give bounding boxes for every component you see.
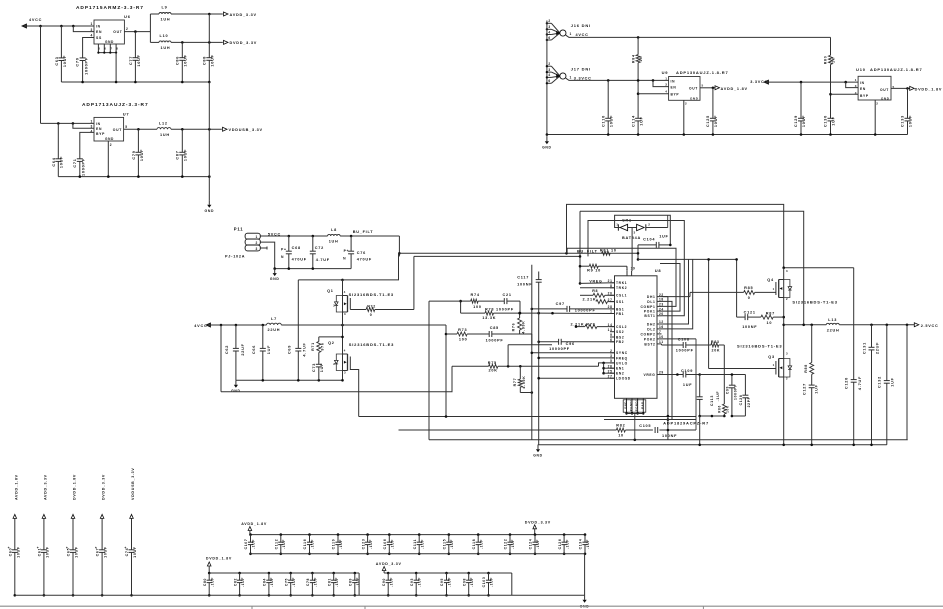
svg-text:1UH: 1UH <box>161 46 171 50</box>
svg-text:R75: R75 <box>488 361 497 365</box>
wire <box>603 363 605 373</box>
wire <box>571 79 669 81</box>
wire <box>107 141 109 177</box>
wire <box>511 573 513 595</box>
node B <box>81 81 84 84</box>
svg-text:SS: SS <box>96 36 102 40</box>
wire <box>250 553 585 555</box>
svg-text:11: 11 <box>659 340 664 344</box>
svg-text:C86: C86 <box>176 56 180 65</box>
inductor L13 <box>826 318 914 332</box>
capacitor C78 <box>306 572 318 597</box>
resistor R71 <box>311 337 325 364</box>
capacitor C131 <box>862 325 879 445</box>
svg-text:22UF: 22UF <box>241 343 245 355</box>
wire <box>251 606 253 609</box>
svg-text:SS1: SS1 <box>616 300 624 304</box>
svg-text:0: 0 <box>748 296 751 300</box>
wire <box>579 211 581 283</box>
svg-text:.1UF: .1UF <box>479 539 483 549</box>
svg-text:1UF: 1UF <box>267 345 271 354</box>
svg-text:PGND2: PGND2 <box>635 399 639 411</box>
svg-text:GND: GND <box>542 145 552 149</box>
node C <box>79 175 82 178</box>
svg-text:10UF: 10UF <box>184 54 188 66</box>
capacitor C115 <box>443 533 455 555</box>
resistor R73 <box>446 328 468 342</box>
capacitor C60 <box>8 474 21 596</box>
svg-text:.1UF: .1UF <box>420 539 424 549</box>
wire <box>319 336 343 338</box>
wire <box>571 36 831 38</box>
ground <box>274 269 276 274</box>
svg-text:.1UF: .1UF <box>314 577 318 587</box>
wire <box>615 215 671 245</box>
svg-text:C67: C67 <box>96 548 100 557</box>
svg-text:2.21K R79: 2.21K R79 <box>571 322 596 326</box>
svg-text:OUT: OUT <box>689 86 698 90</box>
svg-text:C85: C85 <box>490 326 499 330</box>
svg-text:EN: EN <box>860 87 866 91</box>
resistor R81 <box>600 249 617 256</box>
capacitor C103 <box>482 572 494 597</box>
svg-text:4: 4 <box>548 73 550 77</box>
svg-text:R77: R77 <box>513 378 517 387</box>
svg-text:R82: R82 <box>616 423 625 427</box>
svg-text:10UF: 10UF <box>60 156 64 168</box>
regulator U10 <box>858 76 891 100</box>
svg-text:R85: R85 <box>744 286 753 290</box>
capacitor C63 <box>55 26 67 82</box>
svg-text:DH2: DH2 <box>647 322 656 326</box>
capacitor C62 <box>225 325 245 380</box>
svg-text:TRK2: TRK2 <box>616 286 627 290</box>
capacitor C105 <box>639 424 696 438</box>
svg-text:DVDD_1.8V: DVDD_1.8V <box>73 474 77 500</box>
svg-text:C123: C123 <box>361 539 365 550</box>
svg-text:1000PF: 1000PF <box>676 349 694 353</box>
svg-text:EN: EN <box>96 127 102 131</box>
svg-text:GND: GND <box>270 277 280 281</box>
capacitor C104 <box>638 235 672 248</box>
svg-text:EN: EN <box>671 85 677 89</box>
wire <box>298 279 342 281</box>
svg-text:ADP1713AUJZ-3.3-R7: ADP1713AUJZ-3.3-R7 <box>82 102 149 108</box>
svg-text:C73: C73 <box>312 363 316 372</box>
resistor R8 <box>580 289 615 297</box>
svg-text:1UF: 1UF <box>814 384 818 393</box>
wire <box>73 26 94 32</box>
resistor R78 <box>461 308 539 320</box>
capacitor C90 <box>382 572 394 597</box>
capacitor C134 <box>579 533 591 555</box>
capacitor C120 <box>845 376 862 445</box>
wire <box>853 268 855 380</box>
capacitor C68 <box>281 236 307 269</box>
inductor L7 <box>267 317 447 332</box>
wire <box>519 301 521 313</box>
capacitor C109 <box>662 369 702 387</box>
svg-text:FB1: FB1 <box>616 312 624 316</box>
svg-text:4.7UF: 4.7UF <box>302 342 306 356</box>
svg-text:2: 2 <box>333 304 335 308</box>
svg-text:L13: L13 <box>828 318 837 322</box>
node D <box>546 133 549 136</box>
capacitor C107 <box>244 533 256 555</box>
svg-text:P+: P+ <box>281 248 287 252</box>
svg-text:L8: L8 <box>331 228 337 232</box>
node AVDD_3.3V <box>208 13 211 16</box>
svg-text:4: 4 <box>344 290 346 294</box>
svg-text:BS1: BS1 <box>616 307 624 311</box>
svg-text:4: 4 <box>855 91 857 95</box>
svg-text:GND: GND <box>105 137 114 141</box>
svg-text:4: 4 <box>344 348 346 352</box>
svg-text:FREQ: FREQ <box>616 356 628 360</box>
svg-text:GND: GND <box>690 97 699 101</box>
resistor R79 <box>571 322 615 328</box>
capacitor C95 <box>440 572 452 597</box>
svg-text:EN: EN <box>96 30 102 34</box>
svg-text:R86: R86 <box>717 405 721 413</box>
svg-text:22UH: 22UH <box>827 328 840 332</box>
wire <box>124 128 157 130</box>
svg-text:GND: GND <box>105 40 114 44</box>
svg-text:1: 1 <box>773 287 775 291</box>
wire <box>83 38 94 58</box>
svg-text:3: 3 <box>548 68 550 72</box>
svg-text:C82: C82 <box>233 578 237 586</box>
wire <box>507 345 509 367</box>
svg-text:GND: GND <box>231 389 241 393</box>
svg-text:.1UF: .1UF <box>292 577 296 587</box>
wire <box>342 374 344 380</box>
svg-text:470UF: 470UF <box>292 258 307 262</box>
resistor R77 <box>513 366 526 392</box>
svg-text:C65: C65 <box>67 548 71 557</box>
svg-text:EN1: EN1 <box>616 367 624 371</box>
svg-text:N: N <box>281 255 284 259</box>
wire <box>667 297 669 440</box>
node VDDUSB_3.3V <box>181 128 184 131</box>
wire <box>342 280 344 292</box>
wire <box>149 14 151 42</box>
svg-text:.1UF: .1UF <box>448 577 452 587</box>
svg-text:2: 2 <box>685 102 687 106</box>
svg-text:AVDD_1.8V: AVDD_1.8V <box>241 522 267 526</box>
wire <box>580 282 615 285</box>
svg-text:AVDD_1.8V: AVDD_1.8V <box>14 474 18 500</box>
svg-text:J16 DNI: J16 DNI <box>571 23 591 28</box>
svg-text:2: 2 <box>333 362 335 366</box>
svg-text:C64: C64 <box>52 157 56 166</box>
svg-text:10000PF: 10000PF <box>575 309 596 313</box>
wire <box>580 287 615 289</box>
node DVDD_1.8V <box>910 86 915 90</box>
wire <box>709 368 776 370</box>
svg-text:1UF: 1UF <box>320 363 324 372</box>
wire <box>343 253 399 280</box>
svg-text:.1UF: .1UF <box>241 577 245 587</box>
svg-text:C132: C132 <box>878 376 882 388</box>
svg-text:1UH: 1UH <box>329 240 339 244</box>
svg-text:19: 19 <box>631 266 636 270</box>
svg-text:4.7UF: 4.7UF <box>316 258 330 262</box>
svg-text:C68: C68 <box>292 246 301 250</box>
wire <box>250 534 585 536</box>
wire <box>606 429 608 431</box>
svg-text:BYP: BYP <box>96 132 105 136</box>
capacitor C76 <box>343 236 372 269</box>
wire <box>460 301 462 313</box>
capacitor C81 <box>327 572 339 597</box>
capacitor C66 <box>252 325 271 380</box>
wire <box>874 100 876 135</box>
wire <box>260 242 274 269</box>
capacitor C108 <box>662 337 711 352</box>
capacitor C123 <box>361 533 373 555</box>
wire <box>700 415 725 417</box>
svg-text:C95: C95 <box>440 578 444 586</box>
svg-text:FB2: FB2 <box>616 340 624 344</box>
svg-text:Q1: Q1 <box>327 289 334 293</box>
svg-text:22UH: 22UH <box>268 328 281 332</box>
svg-text:10UF: 10UF <box>137 54 141 66</box>
svg-text:BST1: BST1 <box>644 314 655 318</box>
svg-text:C97: C97 <box>556 302 565 306</box>
wire <box>683 220 685 222</box>
capacitor C117 <box>517 275 542 286</box>
capacitor C73 <box>312 363 324 381</box>
wire <box>584 554 586 596</box>
wire <box>546 21 548 135</box>
capacitor C74 <box>124 468 137 597</box>
wire <box>520 333 532 335</box>
capacitor C82 <box>233 572 245 597</box>
capacitor C69 <box>288 280 307 380</box>
svg-text:100NF: 100NF <box>517 283 532 287</box>
inductor L10 <box>150 34 222 50</box>
svg-text:10UF: 10UF <box>104 546 108 558</box>
svg-text:.1UF: .1UF <box>252 539 256 549</box>
svg-text:R71: R71 <box>311 342 315 351</box>
ground <box>208 200 210 205</box>
wire <box>732 415 746 417</box>
wire <box>236 379 343 381</box>
svg-text:GND: GND <box>533 453 543 457</box>
svg-text:U7: U7 <box>123 111 130 116</box>
svg-text:.1UF: .1UF <box>335 577 339 587</box>
connector J16 <box>547 22 552 24</box>
svg-text:2: 2 <box>548 62 550 66</box>
svg-text:2.21K: 2.21K <box>583 298 597 302</box>
svg-text:U8: U8 <box>655 268 662 273</box>
wire <box>699 416 701 445</box>
wire <box>647 227 668 229</box>
svg-text:C87: C87 <box>176 150 180 159</box>
wire BU_FILT bus <box>399 252 638 254</box>
svg-text:.1UF: .1UF <box>210 577 214 587</box>
svg-text:C76: C76 <box>357 251 366 255</box>
wire <box>61 81 209 83</box>
capacitor C21 <box>478 293 520 304</box>
wire <box>58 176 209 178</box>
svg-text:R73: R73 <box>458 328 467 332</box>
svg-text:13.3K: 13.3K <box>482 316 496 320</box>
svg-text:POK1: POK1 <box>644 310 656 314</box>
wire <box>631 270 634 272</box>
wire sense bus <box>414 255 580 257</box>
svg-text:C78: C78 <box>306 578 310 586</box>
wire <box>260 247 267 249</box>
svg-text:1000PF: 1000PF <box>486 339 504 343</box>
wire <box>15 594 585 596</box>
svg-text:R72: R72 <box>367 305 376 309</box>
svg-text:AVDD_3.3V: AVDD_3.3V <box>376 562 402 566</box>
capacitor C75 <box>284 572 296 597</box>
svg-text:C134: C134 <box>579 539 583 550</box>
svg-text:100NF: 100NF <box>662 434 677 438</box>
wire <box>638 93 669 95</box>
svg-text:.1UF: .1UF <box>716 391 720 402</box>
wire <box>723 345 725 404</box>
svg-text:.1UF: .1UF <box>339 539 343 549</box>
svg-text:R8: R8 <box>592 289 598 293</box>
svg-text:SS2: SS2 <box>616 330 624 334</box>
wire <box>350 368 358 417</box>
svg-text:1UF: 1UF <box>683 383 692 387</box>
regulator U7 <box>94 117 124 141</box>
capacitor C122 <box>504 533 516 555</box>
svg-text:R74: R74 <box>471 293 480 297</box>
wire <box>662 296 668 298</box>
wire <box>531 334 533 345</box>
svg-text:C118: C118 <box>472 539 476 550</box>
wire <box>661 344 663 345</box>
svg-text:20K: 20K <box>712 349 721 353</box>
svg-text:VREG: VREG <box>589 279 602 283</box>
svg-text:C113: C113 <box>710 395 714 406</box>
svg-text:10UF: 10UF <box>63 55 67 67</box>
capacitor C110 <box>601 80 613 134</box>
svg-text:2: 2 <box>548 19 550 23</box>
inductor L9 <box>150 6 222 22</box>
wire <box>604 367 615 369</box>
wire <box>700 87 716 89</box>
svg-text:1: 1 <box>616 222 618 226</box>
connector J17 <box>547 65 552 67</box>
wire <box>662 259 689 324</box>
svg-text:R84: R84 <box>631 54 635 63</box>
svg-text:C107: C107 <box>244 539 248 550</box>
svg-text:C79: C79 <box>132 150 136 159</box>
wire <box>80 132 94 158</box>
svg-text:P11: P11 <box>234 226 244 231</box>
svg-text:22PF: 22PF <box>747 397 751 408</box>
capacitor C113 <box>697 375 720 417</box>
inductor L12 <box>157 122 222 138</box>
wire <box>906 325 908 440</box>
svg-text:BST2: BST2 <box>644 342 655 346</box>
capacitor C65 <box>66 474 79 597</box>
capacitor C80 <box>203 572 215 597</box>
wire <box>428 301 430 440</box>
wire loop1 <box>567 204 784 267</box>
svg-text:R80: R80 <box>824 56 828 65</box>
capacitor C79 <box>132 129 144 176</box>
svg-text:100: 100 <box>473 305 482 309</box>
capacitor C119 <box>332 533 344 555</box>
wire <box>98 52 116 54</box>
capacitor C71 <box>73 158 86 177</box>
ground <box>235 380 237 385</box>
svg-text:1UF: 1UF <box>891 377 895 386</box>
wire <box>683 100 685 134</box>
svg-text:VREG: VREG <box>644 373 656 377</box>
wire <box>520 392 532 394</box>
svg-text:.1UF: .1UF <box>586 539 590 549</box>
svg-text:1: 1 <box>855 78 857 82</box>
capacitor C70 <box>76 57 89 82</box>
svg-text:SYNC: SYNC <box>616 351 628 355</box>
svg-text:BYP: BYP <box>860 94 869 98</box>
svg-text:AVDD_3.3V: AVDD_3.3V <box>230 13 257 17</box>
svg-text:.1UF: .1UF <box>565 539 569 549</box>
svg-text:C77: C77 <box>129 56 133 65</box>
wire <box>661 333 663 335</box>
wire <box>831 93 859 95</box>
svg-text:C88: C88 <box>203 56 207 65</box>
svg-text:R78 1000PF: R78 1000PF <box>485 308 514 312</box>
svg-text:IN: IN <box>671 79 676 83</box>
wire <box>599 363 615 366</box>
wire <box>28 25 94 27</box>
svg-text:C106: C106 <box>383 539 387 550</box>
svg-text:C74: C74 <box>125 548 129 557</box>
wire <box>358 573 360 595</box>
regulator U9 <box>669 77 700 101</box>
svg-text:C81: C81 <box>327 578 331 586</box>
wire <box>342 316 344 351</box>
capacitor C67 <box>95 474 108 597</box>
svg-text:C112: C112 <box>275 539 279 550</box>
svg-text:C60: C60 <box>8 548 12 557</box>
svg-text:10UF: 10UF <box>184 149 188 161</box>
svg-text:C96: C96 <box>566 342 575 346</box>
wire <box>359 416 696 418</box>
svg-text:VDDUSB_3.3V: VDDUSB_3.3V <box>229 128 263 132</box>
svg-text:R9 10: R9 10 <box>587 268 601 272</box>
wire <box>662 259 693 329</box>
wire <box>846 82 858 88</box>
svg-text:C130: C130 <box>824 115 828 127</box>
wire <box>538 444 887 446</box>
wire <box>634 414 636 417</box>
svg-text:.1UF: .1UF <box>389 577 393 587</box>
svg-text:2: 2 <box>876 101 878 105</box>
svg-text:1UF: 1UF <box>659 235 668 239</box>
svg-text:GND: GND <box>881 96 890 100</box>
wire <box>784 267 854 269</box>
wire <box>626 266 628 271</box>
svg-text:2: 2 <box>786 297 788 301</box>
svg-text:DL2: DL2 <box>647 327 655 331</box>
wire <box>220 325 222 392</box>
svg-text:SI2316BDS-T1-E3: SI2316BDS-T1-E3 <box>349 292 394 297</box>
svg-text:4.99K: 4.99K <box>522 375 526 388</box>
wire <box>260 235 327 237</box>
resistor R72 <box>350 305 414 317</box>
